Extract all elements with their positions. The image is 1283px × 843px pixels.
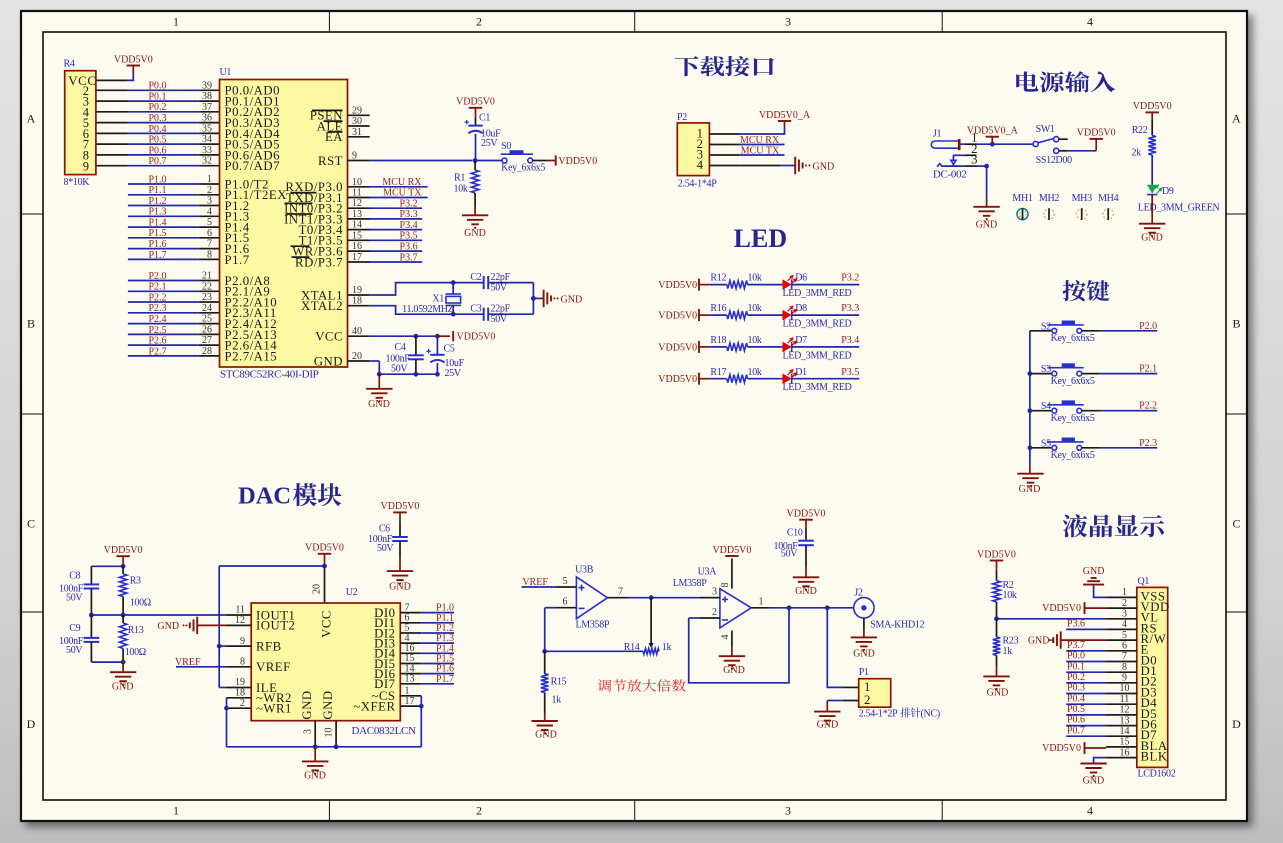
svg-text:7: 7 — [1122, 651, 1127, 662]
svg-text:13: 13 — [1120, 715, 1130, 726]
svg-text:D6: D6 — [795, 273, 807, 284]
wire U3B output pin7 — [608, 597, 629, 599]
capacitor C3 22pF 50V — [483, 308, 485, 321]
svg-text:A: A — [27, 112, 36, 126]
red note tiaojie fangda beishu — [598, 679, 686, 691]
svg-text:1k: 1k — [552, 694, 562, 705]
capacitor C8 100nF 50V — [90, 566, 92, 584]
svg-text:VDD5V0: VDD5V0 — [977, 549, 1016, 560]
svg-text:VCC: VCC — [315, 330, 343, 344]
capacitor C2 22pF 50V — [483, 276, 485, 289]
svg-text:9: 9 — [352, 151, 357, 162]
svg-text:17: 17 — [352, 252, 362, 263]
svg-text:GND: GND — [314, 354, 343, 368]
svg-text:10: 10 — [324, 728, 335, 738]
svg-text:VDD5V0: VDD5V0 — [114, 54, 153, 65]
svg-text:5: 5 — [1122, 630, 1127, 641]
svg-text:B: B — [27, 317, 35, 331]
svg-text:R1: R1 — [454, 173, 465, 184]
svg-text:VREF: VREF — [175, 657, 201, 668]
svg-text:U2: U2 — [346, 587, 358, 598]
svg-text:15: 15 — [352, 230, 362, 241]
svg-text:P0.2: P0.2 — [148, 102, 166, 113]
svg-text:P2.0: P2.0 — [1139, 321, 1157, 332]
power port VDD5V0 right of S0 — [555, 155, 557, 165]
wire net VREF at U3B pin5 — [522, 586, 556, 588]
U1 overlines on PSEN ALE EA TXD INT0 INT1 WR RD — [312, 109, 343, 111]
svg-text:VDD5V0: VDD5V0 — [381, 501, 420, 512]
wire GND rail under C4 C5 — [379, 373, 437, 375]
svg-text:17: 17 — [405, 696, 415, 707]
svg-text:U1: U1 — [220, 67, 232, 78]
svg-text:21: 21 — [202, 271, 212, 282]
svg-text:A: A — [1232, 112, 1241, 126]
svg-text:3: 3 — [785, 804, 791, 818]
svg-text:GND: GND — [300, 690, 314, 719]
U2 top pin 20 stub — [324, 566, 326, 603]
svg-text:P1.6: P1.6 — [148, 239, 166, 250]
svg-text:2: 2 — [1122, 598, 1127, 609]
wire P1 pin2 to GND — [843, 700, 859, 702]
wire LCD pin16 to GND — [1094, 758, 1107, 764]
svg-text:R17: R17 — [710, 367, 726, 378]
junction WR1 — [224, 706, 229, 711]
svg-text:GND: GND — [987, 688, 1009, 699]
svg-text:4: 4 — [1122, 619, 1127, 630]
svg-text:25: 25 — [202, 314, 212, 325]
svg-text:MCU RX: MCU RX — [740, 135, 780, 146]
LED D8 LED_3MM_RED — [783, 310, 792, 320]
svg-text:GND: GND — [321, 690, 335, 719]
svg-text:GND: GND — [1028, 635, 1050, 646]
wire net MCU RX at P2 — [740, 144, 785, 146]
capacitor C5 10uF 25V — [436, 336, 438, 355]
svg-text:5: 5 — [207, 217, 212, 228]
svg-text:B: B — [1232, 317, 1240, 331]
svg-text:SS12D00: SS12D00 — [1036, 155, 1073, 166]
ground GND below R1 — [462, 214, 488, 216]
svg-text:D9: D9 — [1162, 186, 1174, 197]
svg-text:P0.1: P0.1 — [148, 92, 166, 103]
svg-text:P3.2: P3.2 — [841, 273, 859, 284]
svg-text:D8: D8 — [795, 303, 807, 314]
svg-text:40: 40 — [352, 326, 362, 337]
ground GND below C6 — [387, 570, 413, 572]
svg-text:1k: 1k — [662, 642, 672, 653]
svg-text:3: 3 — [207, 196, 212, 207]
svg-text:3: 3 — [712, 587, 717, 598]
U2 left pin stubs and numbers — [227, 614, 252, 616]
svg-text:Key_6x6x5: Key_6x6x5 — [1051, 450, 1095, 461]
svg-text:MCU RX: MCU RX — [382, 177, 422, 188]
svg-text:P2.7: P2.7 — [148, 346, 166, 357]
ground GND below C10 — [793, 576, 819, 578]
svg-text:P1.7: P1.7 — [436, 674, 454, 685]
wire net P3.3 — [792, 314, 860, 316]
svg-text:10: 10 — [1120, 683, 1130, 694]
wire nets P0.0-P0.7 at LCD — [1066, 661, 1106, 663]
svg-text:12: 12 — [235, 615, 245, 626]
svg-text:2: 2 — [476, 804, 482, 818]
resistor R13 100ohm — [122, 615, 124, 623]
svg-text:6: 6 — [207, 228, 212, 239]
svg-text:9: 9 — [83, 159, 90, 173]
svg-text:P3.7: P3.7 — [400, 252, 418, 263]
U3A power pin8 — [731, 559, 733, 589]
svg-text:MH2: MH2 — [1039, 193, 1060, 204]
U2 right pin stubs and numbers — [400, 612, 421, 614]
wire nets P3.2-P3.7 at U1 — [369, 207, 422, 209]
wire XTAL1 net — [370, 283, 451, 295]
svg-text:LM358P: LM358P — [576, 620, 611, 631]
svg-text:GND: GND — [304, 771, 326, 782]
svg-text:22pF: 22pF — [491, 272, 511, 283]
wire net MCU RX at U1 — [369, 186, 428, 188]
svg-text:GND: GND — [723, 665, 745, 676]
title yejing xianshi — [1063, 514, 1164, 537]
svg-text:D: D — [1232, 717, 1241, 731]
wire D9 to GND — [1151, 195, 1153, 224]
svg-text:8: 8 — [1122, 662, 1127, 673]
wire XTAL2 net — [370, 306, 451, 315]
ground GND below J2 — [851, 636, 877, 638]
power port VDD5V0 at VCC pin — [452, 331, 454, 341]
svg-text:10k: 10k — [1003, 590, 1017, 601]
wire S5 to net P2.3 — [1082, 447, 1100, 449]
svg-text:R15: R15 — [551, 677, 567, 688]
svg-text:P3.5: P3.5 — [400, 231, 418, 242]
svg-text:10k: 10k — [748, 367, 762, 378]
svg-text:MCU TX: MCU TX — [383, 188, 422, 199]
svg-text:P2.6: P2.6 — [148, 336, 166, 347]
svg-text:10k: 10k — [748, 303, 762, 314]
svg-text:P0.6: P0.6 — [1067, 715, 1085, 726]
svg-text:4: 4 — [1087, 804, 1093, 818]
svg-text:LED_3MM_GREEN: LED_3MM_GREEN — [1138, 203, 1220, 214]
svg-text:P1.2: P1.2 — [148, 196, 166, 207]
svg-text:LED: LED — [734, 224, 787, 253]
resistor R2 10k — [993, 581, 1001, 602]
wire U3A pin3 — [700, 597, 720, 599]
resistor R12 10k — [710, 284, 727, 286]
junction RST node — [473, 158, 478, 163]
crystal X1 11.0592MHZ — [452, 283, 454, 294]
svg-text:DAC0832LCN: DAC0832LCN — [352, 725, 417, 737]
svg-text:GND: GND — [561, 294, 583, 305]
svg-text:18: 18 — [352, 296, 362, 307]
svg-text:50V: 50V — [391, 364, 408, 375]
junction output to P1 — [825, 605, 830, 610]
svg-text:C8: C8 — [69, 570, 80, 581]
svg-text:7: 7 — [207, 239, 212, 250]
svg-text:35: 35 — [202, 123, 212, 134]
svg-text:P0.5: P0.5 — [1067, 704, 1085, 715]
J1 sleeve and switch contacts — [937, 164, 942, 167]
svg-text:VREF: VREF — [522, 577, 548, 588]
wire R1 to GND — [474, 193, 476, 207]
svg-text:DC-002: DC-002 — [933, 169, 967, 181]
wire VL net to LCD pin3 — [997, 618, 1107, 620]
svg-text:P2.0: P2.0 — [148, 271, 166, 282]
resistor R23 1k — [996, 619, 998, 637]
power port VDD5V0 above C1 — [469, 107, 482, 109]
svg-text:GND: GND — [157, 621, 179, 632]
resistor network R4 — [64, 59, 97, 189]
Q1 pin stubs and numbers — [1106, 596, 1137, 598]
svg-text:R13: R13 — [128, 625, 144, 636]
wire P2 pin1 to VDD5V0_A — [740, 127, 785, 135]
svg-text:P0.6: P0.6 — [148, 145, 166, 156]
wire net MCU TX at U1 — [369, 197, 428, 199]
zone tick lines — [328, 11, 330, 32]
svg-text:GND: GND — [1019, 484, 1041, 495]
svg-text:LED_3MM_RED: LED_3MM_RED — [783, 288, 852, 299]
svg-text:P3.7: P3.7 — [1067, 640, 1085, 651]
svg-text:15: 15 — [1120, 737, 1130, 748]
svg-text:P0.0: P0.0 — [1067, 651, 1085, 662]
title dianyuan shuru — [1016, 71, 1115, 92]
svg-text:1: 1 — [173, 15, 179, 29]
svg-text:22: 22 — [202, 281, 212, 292]
svg-text:50V: 50V — [781, 549, 798, 560]
svg-text:P2.3: P2.3 — [1139, 438, 1157, 449]
svg-text:D1: D1 — [795, 367, 807, 378]
svg-text:2: 2 — [207, 185, 212, 196]
svg-text:LCD1602: LCD1602 — [1138, 769, 1176, 780]
svg-text:MH1: MH1 — [1012, 193, 1033, 204]
svg-text:4: 4 — [207, 206, 212, 217]
svg-text:GND: GND — [1083, 566, 1105, 577]
svg-text:33: 33 — [202, 145, 212, 156]
U1 right pin stubs and numbers — [348, 114, 370, 116]
svg-text:GND: GND — [464, 228, 486, 239]
svg-text:19: 19 — [352, 285, 362, 296]
power port VDD5V0 above R3 — [116, 555, 129, 557]
svg-text:P0.4: P0.4 — [1067, 693, 1085, 704]
wire J2 to GND — [863, 618, 865, 629]
svg-text:50V: 50V — [377, 543, 394, 554]
resistor R16 10k — [710, 314, 727, 316]
wire U3A pin2 feedback — [689, 617, 700, 619]
svg-text:1: 1 — [173, 804, 179, 818]
svg-text:GND: GND — [389, 582, 411, 593]
svg-text:VDD5V0: VDD5V0 — [305, 543, 344, 554]
wire net VREF at U2 — [176, 666, 227, 668]
LED D7 LED_3MM_RED — [783, 342, 792, 352]
svg-text:29: 29 — [352, 105, 362, 116]
svg-text:C10: C10 — [787, 528, 803, 539]
svg-text:P3.3: P3.3 — [841, 303, 859, 314]
wire P2 pin4 to GND — [740, 165, 780, 167]
svg-text:~XFER: ~XFER — [353, 699, 395, 713]
svg-text:D: D — [27, 717, 36, 731]
svg-text:1: 1 — [759, 597, 764, 608]
svg-text:GND: GND — [368, 399, 390, 410]
svg-text:28: 28 — [202, 346, 212, 357]
svg-text:4: 4 — [1087, 15, 1093, 29]
rheostat R14 1k wiper — [650, 598, 652, 644]
svg-text:R3: R3 — [130, 575, 141, 586]
svg-text:5: 5 — [563, 576, 568, 587]
svg-text:12: 12 — [1120, 705, 1130, 716]
svg-text:36: 36 — [202, 113, 212, 124]
svg-text:P0.0: P0.0 — [148, 81, 166, 92]
svg-text:P1.0: P1.0 — [148, 174, 166, 185]
resistor R18 10k — [710, 346, 727, 348]
svg-text:2: 2 — [476, 15, 482, 29]
svg-text:GND: GND — [112, 681, 134, 692]
junction U3B out — [649, 595, 654, 600]
svg-text:P0.2: P0.2 — [1067, 672, 1085, 683]
svg-text:C: C — [27, 517, 35, 531]
ground GND keys — [1029, 467, 1031, 474]
svg-text:C4: C4 — [395, 342, 406, 353]
svg-text:MCU TX: MCU TX — [741, 145, 780, 156]
svg-text:1: 1 — [864, 680, 871, 694]
wire crystal caps to GND — [488, 282, 533, 284]
wire output to P1 pin1 — [827, 608, 843, 688]
svg-text:VDD5V0: VDD5V0 — [558, 156, 597, 167]
svg-text:VDD5V0: VDD5V0 — [658, 311, 697, 322]
wire VCC net pin40 — [370, 335, 435, 337]
svg-text:4: 4 — [720, 635, 731, 640]
wire R14 rail — [545, 650, 643, 652]
svg-text:P3.4: P3.4 — [841, 335, 859, 346]
svg-text:VDD5V0: VDD5V0 — [1042, 743, 1081, 754]
svg-text:P3.4: P3.4 — [400, 220, 418, 231]
svg-text:P2.7/A15: P2.7/A15 — [225, 349, 278, 363]
wire U3B pin6 — [545, 607, 556, 609]
svg-text:VDD5V0_A: VDD5V0_A — [759, 110, 811, 121]
svg-text:R23: R23 — [1003, 635, 1019, 646]
junction keys rail S3 — [1028, 371, 1033, 376]
svg-text:P2.3: P2.3 — [148, 303, 166, 314]
svg-text:R12: R12 — [710, 273, 726, 284]
svg-text:13: 13 — [352, 209, 362, 220]
svg-text:VREF: VREF — [256, 660, 291, 674]
svg-text:LED_3MM_RED: LED_3MM_RED — [783, 350, 852, 361]
svg-text:34: 34 — [202, 134, 212, 145]
svg-text:GND: GND — [1141, 233, 1163, 244]
wire nets P1.0-P1.7 at U2 — [421, 612, 454, 614]
svg-text:RST: RST — [318, 154, 343, 168]
svg-text:8: 8 — [207, 249, 212, 260]
LED D9 LED_3MM_GREEN — [1147, 185, 1157, 194]
ground GND below D9 — [1139, 223, 1165, 225]
junction C8 rail — [89, 613, 94, 618]
svg-text:GND: GND — [817, 720, 839, 731]
svg-text:6: 6 — [1122, 641, 1127, 652]
svg-text:Key_6x6x5: Key_6x6x5 — [1051, 376, 1095, 387]
connector P1 2.54-1*2P — [859, 679, 891, 708]
svg-text:10k: 10k — [748, 335, 762, 346]
svg-text:32: 32 — [202, 156, 212, 167]
svg-text:11: 11 — [1120, 694, 1130, 705]
P1 net wires with labels — [128, 183, 199, 185]
wire U2 bottom ground rail — [227, 746, 422, 748]
ground GND below R23 — [996, 667, 998, 677]
svg-text:LED_3MM_RED: LED_3MM_RED — [783, 319, 852, 330]
svg-text:SW1: SW1 — [1036, 124, 1055, 135]
svg-text:3: 3 — [785, 15, 791, 29]
svg-text:31: 31 — [352, 127, 362, 138]
svg-text:22pF: 22pF — [491, 304, 511, 315]
svg-text:Q1: Q1 — [1138, 576, 1150, 587]
svg-text:IOUT2: IOUT2 — [256, 619, 295, 633]
svg-text:GND: GND — [853, 648, 875, 659]
svg-text:MH4: MH4 — [1098, 193, 1119, 204]
svg-text:BLK: BLK — [1141, 750, 1168, 764]
ground GND below R15 — [544, 713, 546, 721]
wire S2 to net P2.0 — [1082, 330, 1100, 332]
svg-text:C9: C9 — [69, 623, 80, 634]
svg-text:J2: J2 — [854, 587, 863, 598]
svg-text:VDD5V0: VDD5V0 — [457, 332, 496, 343]
ground GND below P1 — [814, 711, 840, 713]
wire U3A output pin1 — [751, 607, 769, 609]
svg-text:2.54-1*2P: 2.54-1*2P — [859, 709, 898, 720]
svg-text:P2.4: P2.4 — [148, 314, 166, 325]
op U2 body DAC0832LCN — [251, 603, 400, 721]
svg-text:P0.7: P0.7 — [148, 156, 166, 167]
power port VDD5V0 above R2 — [990, 560, 1003, 562]
svg-text:VDD5V0: VDD5V0 — [1133, 101, 1172, 112]
junction feedback at output — [787, 605, 792, 610]
U1 left pin stubs P0 with pin numbers 39-32 — [199, 89, 220, 91]
wire net MCU TX at P2 — [740, 154, 785, 156]
power port VDD5V0 above C10 — [799, 519, 812, 521]
svg-text:P1: P1 — [859, 667, 869, 678]
svg-text:11: 11 — [352, 188, 362, 199]
junction crystal top — [451, 280, 456, 285]
svg-text:2: 2 — [712, 607, 717, 618]
svg-text:P2.5: P2.5 — [148, 325, 166, 336]
ground GND below U3A — [719, 655, 745, 657]
svg-text:3: 3 — [1122, 609, 1127, 620]
svg-text:7: 7 — [618, 587, 623, 598]
svg-text:20: 20 — [312, 584, 323, 594]
svg-text:1: 1 — [207, 174, 212, 185]
power port VDD5V0 right of SW1 — [1090, 138, 1103, 140]
svg-text:DAC: DAC — [238, 483, 291, 510]
wire J1 pin1 to switch — [961, 143, 966, 145]
svg-text:GND: GND — [976, 219, 998, 230]
svg-text:24: 24 — [202, 303, 212, 314]
svg-text:P1.5: P1.5 — [148, 228, 166, 239]
svg-text:P1.7: P1.7 — [225, 253, 250, 267]
svg-text:50V: 50V — [66, 593, 83, 604]
power port VDD5V0 above R22 — [1146, 111, 1159, 113]
svg-text:P0.4: P0.4 — [148, 124, 166, 135]
svg-text:1: 1 — [1122, 587, 1127, 598]
svg-text:P1.7: P1.7 — [148, 250, 166, 261]
svg-text:P0.3: P0.3 — [148, 113, 166, 124]
svg-text:P1.3: P1.3 — [148, 207, 166, 218]
U1 left pin stubs P1 pins 1-8 — [199, 183, 220, 185]
junction keys rail S4 — [1028, 408, 1033, 413]
svg-text:25V: 25V — [481, 138, 498, 149]
svg-text:GND: GND — [1083, 776, 1105, 787]
svg-text:LED_3MM_RED: LED_3MM_RED — [783, 382, 852, 393]
svg-text:P2.2: P2.2 — [148, 292, 166, 303]
resistor R22 2k — [1148, 136, 1156, 156]
svg-text:C6: C6 — [379, 523, 390, 534]
svg-text:6: 6 — [563, 597, 568, 608]
op Q1 body LCD1602 — [1137, 587, 1168, 767]
U1 left pin stubs P2 pins 21-28 — [199, 280, 220, 282]
svg-text:11.0592MHZ: 11.0592MHZ — [402, 304, 454, 315]
svg-text:J1: J1 — [933, 128, 942, 139]
